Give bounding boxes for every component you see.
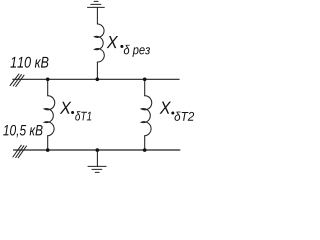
ground (bottom) [88, 150, 106, 172]
node: bus junction T2 bottom [143, 148, 147, 152]
label X of X*δТ1 [60, 102, 72, 114]
label 110 кВ [10, 57, 48, 68]
label X of X*δ рез [107, 36, 119, 48]
label δТ1 subscript [75, 111, 91, 120]
transformer coil X*δТ2 [141, 96, 152, 136]
reactor coil X*δ рез [94, 24, 104, 62]
wire T2 top [144, 79, 146, 95]
wire T2 bottom [144, 136, 146, 151]
wire T1 bottom [47, 136, 49, 151]
node: bus junction T2 top [143, 78, 147, 82]
bus 110 kV [13, 78, 180, 80]
node: bus junction ground [96, 148, 100, 152]
star of X*δТ2 [171, 112, 174, 115]
label δТ2 subscript [175, 112, 195, 121]
wire T1 top [47, 79, 49, 95]
hatch marks 10,5 kV bus [13, 145, 27, 158]
bus 10,5 kV [14, 149, 180, 151]
label δ рез subscript [124, 45, 150, 57]
label 10,5 кВ [3, 125, 42, 137]
transformer coil X*δТ1 [44, 96, 55, 136]
node: bus junction T1 top [46, 78, 50, 82]
node: bus junction T1 bottom [46, 148, 50, 152]
hatch marks 110 kV bus [10, 74, 24, 86]
star of X*δТ1 [71, 111, 74, 114]
label X of X*δТ2 [160, 102, 172, 114]
star of X*δ рез [120, 45, 123, 48]
ground (top, inverted) [88, 1, 105, 24]
wire coil-to-bus [96, 62, 98, 79]
node: bus junction rez [96, 78, 100, 82]
